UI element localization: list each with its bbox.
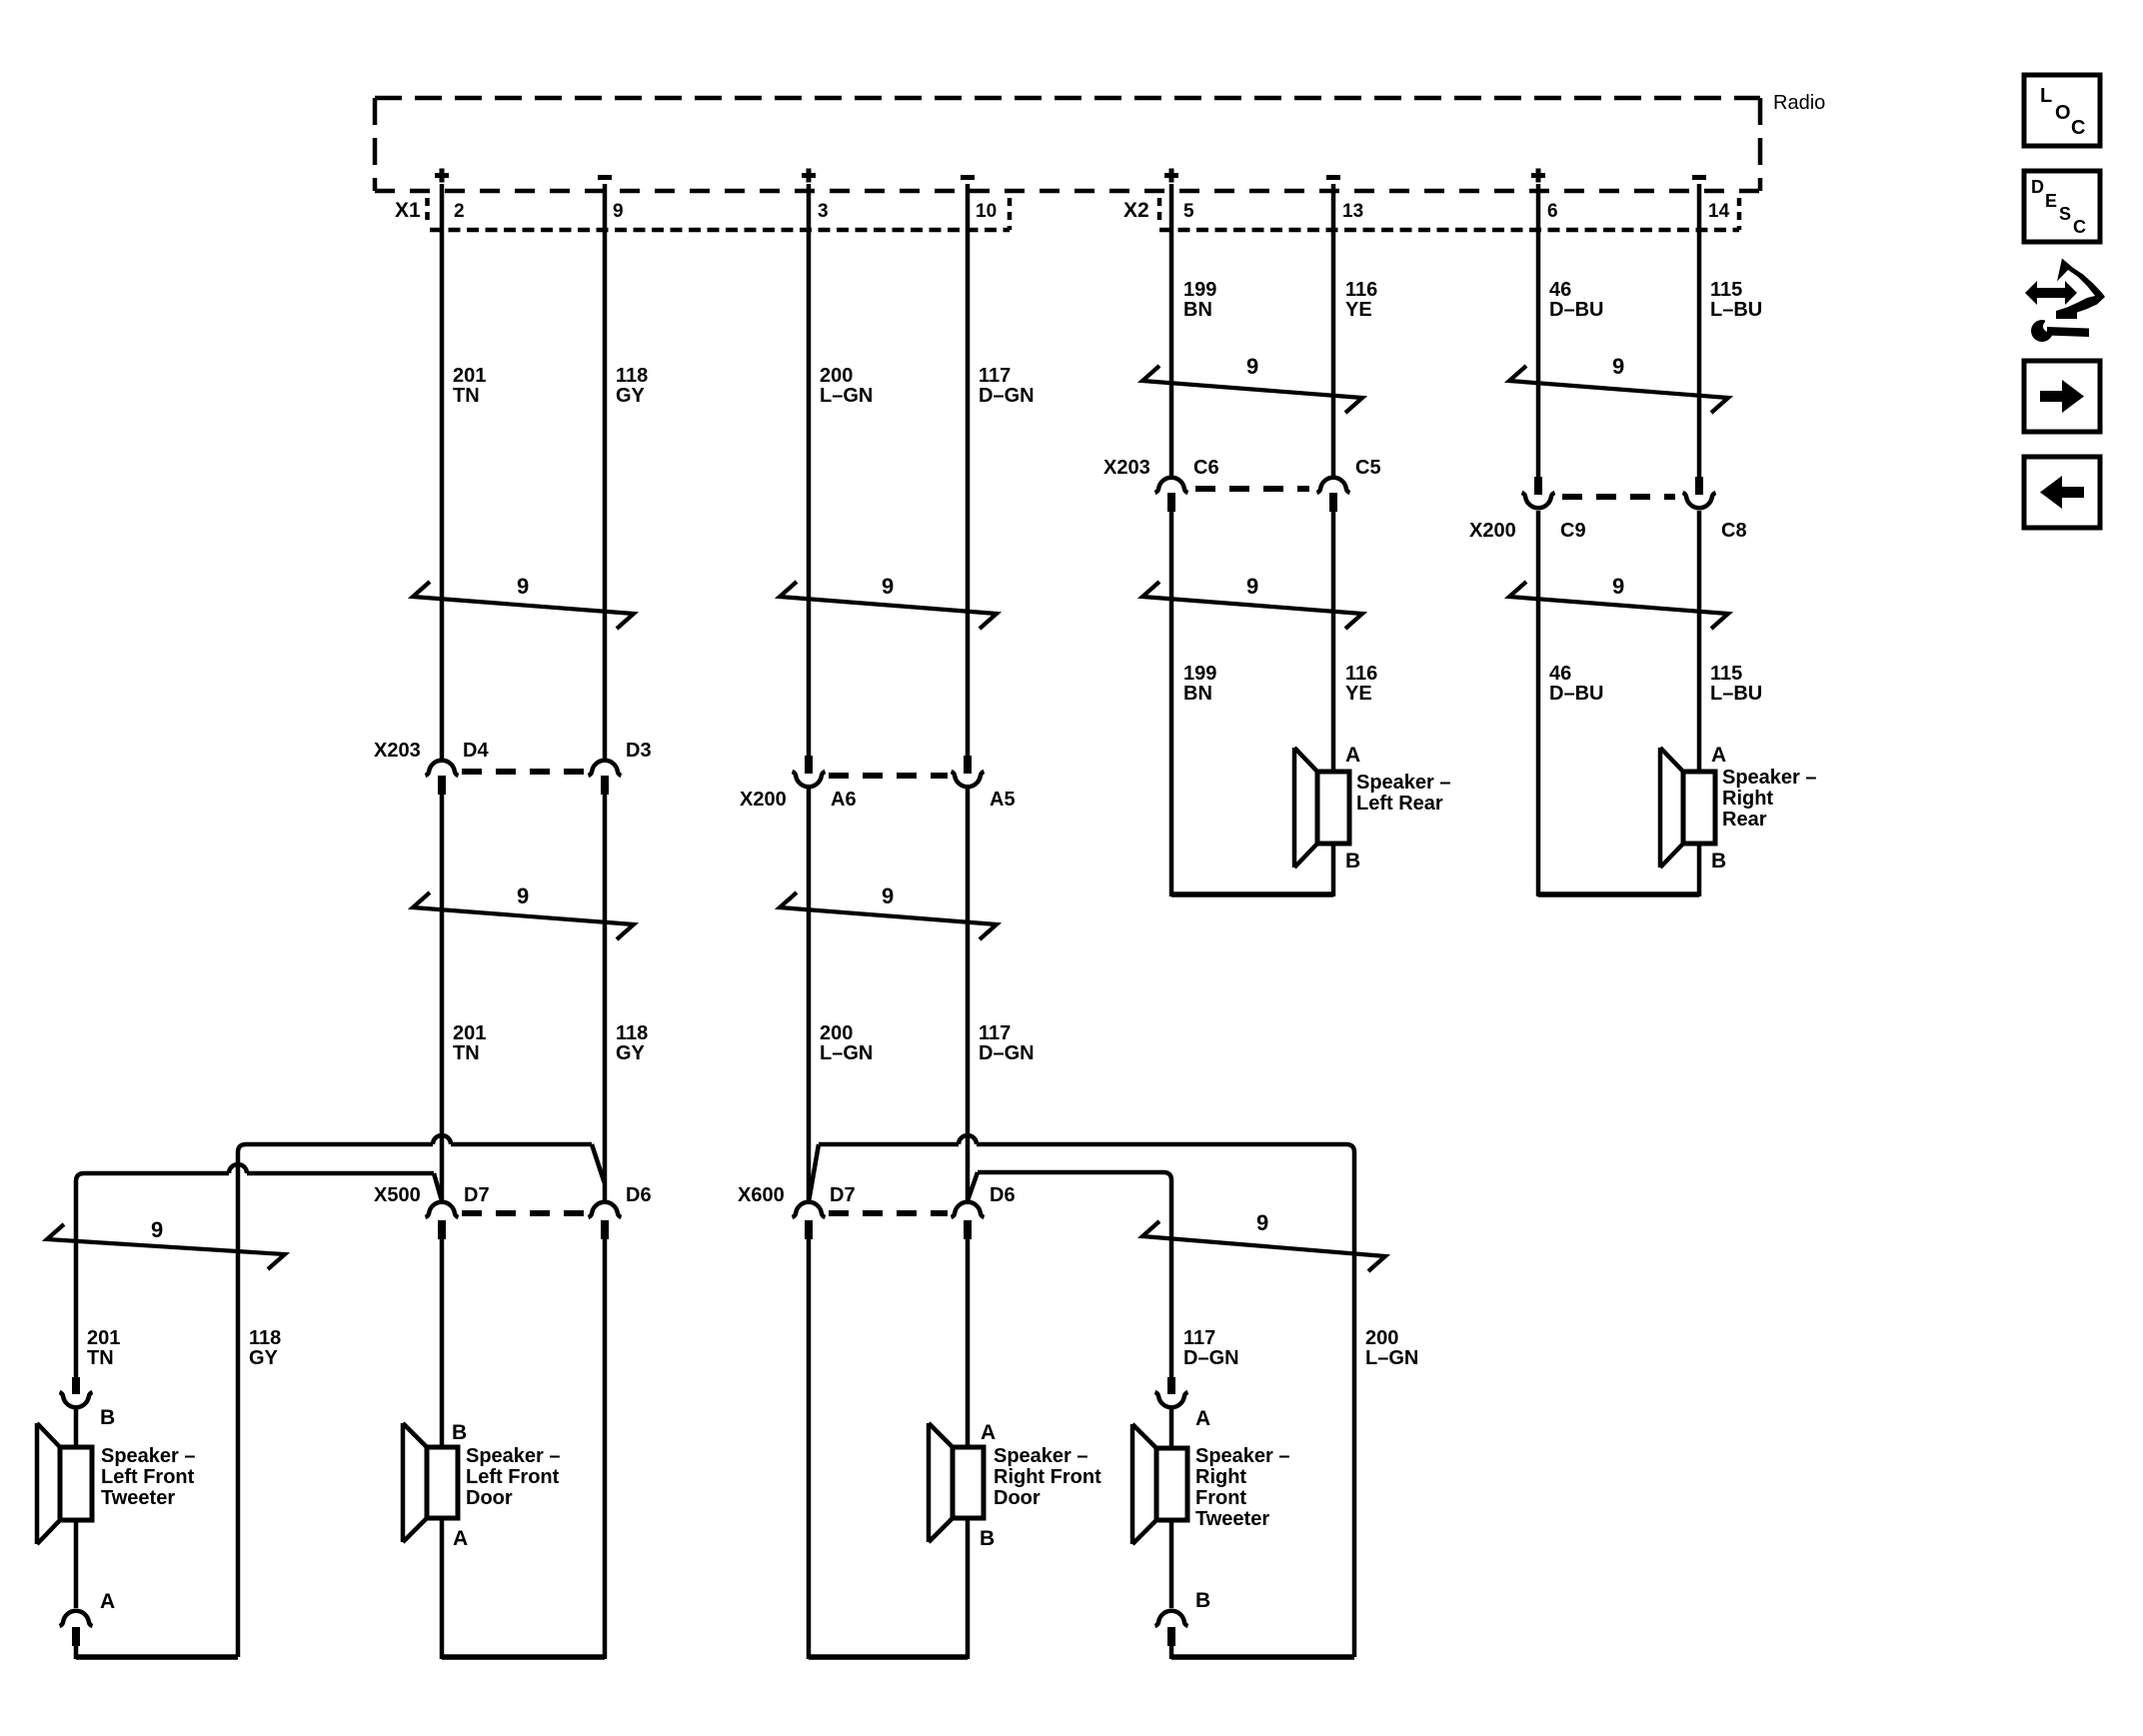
hop bump (118 GY branch over 201 TN wire)	[433, 1135, 451, 1144]
svg-text:L–GN: L–GN	[820, 1042, 873, 1064]
wire loop Right Front Tweeter	[1171, 1654, 1354, 1660]
connector X203 D dashed mate line	[462, 769, 585, 775]
connector X200 pin A6	[805, 756, 813, 774]
wire Right Front Tweeter B to loop	[1169, 1646, 1174, 1659]
wire 118 GY (X203 D3 to X500 D6)	[603, 794, 608, 1202]
wire 117 D-GN (X200 A5 to X600 D6)	[966, 789, 971, 1202]
polarity −	[1692, 175, 1706, 180]
svg-text:Left Front: Left Front	[466, 1466, 560, 1488]
twisted-pair marker 9 (201/118) low	[413, 892, 634, 939]
svg-text:BN: BN	[1183, 299, 1212, 321]
svg-text:B: B	[1345, 850, 1360, 872]
svg-text:C6: C6	[1193, 457, 1219, 479]
svg-text:X203: X203	[374, 740, 421, 762]
svg-text:201: 201	[453, 1022, 486, 1044]
wire to Left Front Tweeter B	[74, 1409, 79, 1447]
svg-text:L–BU: L–BU	[1710, 683, 1762, 705]
svg-text:D–GN: D–GN	[1183, 1347, 1239, 1369]
svg-text:117: 117	[979, 1022, 1011, 1044]
svg-text:Radio: Radio	[1773, 92, 1825, 114]
speaker Left Front Door (icon)	[427, 1447, 458, 1518]
svg-text:L–BU: L–BU	[1710, 299, 1762, 321]
svg-text:46: 46	[1549, 279, 1571, 301]
svg-text:L–GN: L–GN	[1365, 1347, 1418, 1369]
connector pin (Right Front Tweeter A)	[1167, 1377, 1175, 1394]
twisted-pair marker 9 (200/117)	[780, 582, 997, 629]
svg-text:GY: GY	[616, 1042, 646, 1064]
polarity −	[598, 175, 612, 180]
wire loop Left Front Door	[442, 1654, 605, 1660]
svg-text:X2: X2	[1123, 199, 1149, 222]
connector X203 pin C6	[1155, 478, 1188, 493]
connector X500 pin D6	[589, 1202, 622, 1217]
svg-text:Speaker –: Speaker –	[1195, 1445, 1290, 1467]
wire loop Right Front Door	[809, 1654, 968, 1660]
wire Left Front Tweeter A to loop	[74, 1646, 79, 1659]
connector X500 dashed mate line	[462, 1210, 585, 1216]
svg-text:YE: YE	[1345, 299, 1372, 321]
twisted-pair marker 9 (199/116) mid	[1142, 582, 1362, 629]
connector X203 pin C5	[1317, 478, 1350, 493]
svg-text:D4: D4	[463, 740, 489, 762]
svg-text:YE: YE	[1345, 683, 1372, 705]
svg-text:201: 201	[87, 1327, 120, 1349]
svg-text:D6: D6	[990, 1184, 1016, 1206]
svg-text:Speaker –: Speaker –	[1356, 772, 1451, 794]
svg-text:10: 10	[976, 201, 997, 222]
svg-text:A: A	[100, 1590, 115, 1613]
twisted-pair marker 9 (46/115)	[1509, 366, 1728, 413]
svg-text:C: C	[2073, 217, 2086, 237]
svg-text:Right: Right	[1722, 788, 1773, 810]
svg-text:115: 115	[1710, 663, 1742, 685]
wire 199 BN (X2-5 to X203 C6)	[1169, 184, 1174, 478]
svg-text:13: 13	[1342, 201, 1363, 222]
wire 116 YE (X203 C5 to Left Rear A)	[1331, 512, 1336, 772]
wire 118 GY (X1-9 to X203 D3)	[603, 184, 608, 761]
wire 201 TN (X1-2 to X203 D4)	[440, 184, 445, 761]
wire Right Rear B to loop	[1697, 844, 1702, 896]
svg-text:O: O	[2055, 102, 2071, 124]
icon LOC box	[2024, 75, 2100, 146]
connector X200 pin C8	[1695, 477, 1703, 495]
svg-text:118: 118	[616, 1022, 648, 1044]
svg-text:9: 9	[613, 201, 624, 222]
svg-text:117: 117	[979, 365, 1011, 387]
svg-text:D: D	[2031, 177, 2044, 197]
svg-text:201: 201	[453, 365, 486, 387]
wire 115 L-BU (X200 C8 to Right Rear A)	[1697, 511, 1702, 772]
svg-text:9: 9	[1612, 354, 1624, 379]
connector X1 (radio harness strip)	[430, 228, 1010, 233]
wire Left Rear B to loop	[1331, 844, 1336, 896]
wire loop Right Rear (46 D-BU return)	[1538, 891, 1699, 897]
icon DESC box	[2024, 171, 2100, 242]
polarity +	[1164, 169, 1178, 183]
svg-text:D–BU: D–BU	[1549, 299, 1603, 321]
connector X203 dashed mate line	[1195, 486, 1309, 492]
wire loop Left Front Tweeter	[76, 1654, 238, 1660]
wire X500 D7 to Left Front Door B	[440, 1239, 445, 1447]
svg-text:TN: TN	[87, 1347, 114, 1369]
svg-text:Left Rear: Left Rear	[1356, 793, 1443, 815]
svg-text:D7: D7	[464, 1184, 490, 1206]
svg-text:D–GN: D–GN	[979, 1042, 1035, 1064]
svg-text:200: 200	[820, 1022, 853, 1044]
svg-text:115: 115	[1710, 279, 1742, 301]
svg-text:TN: TN	[453, 385, 480, 407]
svg-text:Tweeter: Tweeter	[101, 1487, 175, 1509]
icon arrow left box	[2024, 457, 2100, 528]
svg-text:116: 116	[1345, 663, 1377, 685]
twisted-pair marker 9 (tweeter 201/118)	[47, 1224, 285, 1269]
svg-text:C9: C9	[1560, 520, 1586, 542]
svg-text:Front: Front	[1195, 1487, 1246, 1509]
svg-text:9: 9	[1612, 574, 1624, 599]
speaker Right Front Tweeter (icon)	[1156, 1448, 1187, 1520]
speaker Left Rear (icon)	[1317, 772, 1349, 844]
connector pin (Right Front Tweeter B)	[1155, 1611, 1188, 1626]
svg-text:A: A	[453, 1527, 468, 1550]
connector pin (Left Front Tweeter B)	[72, 1377, 80, 1394]
svg-text:Speaker –: Speaker –	[101, 1445, 196, 1467]
wire 117 D-GN branch (junction to Right Front Tweeter feed)	[978, 1172, 1171, 1377]
twisted-pair marker 9 (199/116)	[1142, 366, 1362, 413]
speaker Left Front Tweeter (icon)	[60, 1447, 92, 1520]
svg-text:9: 9	[151, 1217, 163, 1242]
svg-text:14: 14	[1708, 201, 1730, 222]
svg-text:X500: X500	[374, 1184, 421, 1206]
svg-text:D–BU: D–BU	[1549, 683, 1603, 705]
svg-text:200: 200	[820, 365, 853, 387]
wire loop Left Rear (199 BN return)	[1171, 891, 1333, 897]
twisted-pair marker 9 (200/117) low	[780, 892, 997, 939]
svg-text:TN: TN	[453, 1042, 480, 1064]
wire 201 TN (X203 D4 to X500 D7)	[440, 794, 445, 1202]
twisted-pair marker 9 (201/118)	[413, 582, 634, 629]
svg-text:Tweeter: Tweeter	[1195, 1508, 1269, 1530]
wire X600 D7 to loop	[807, 1239, 812, 1659]
svg-text:GY: GY	[249, 1347, 279, 1369]
svg-text:116: 116	[1345, 279, 1377, 301]
svg-text:9: 9	[517, 883, 529, 908]
svg-text:B: B	[1711, 850, 1726, 872]
svg-text:GY: GY	[616, 385, 646, 407]
radio (dashed outline box)	[375, 96, 1760, 101]
svg-text:199: 199	[1183, 279, 1216, 301]
svg-text:9: 9	[882, 574, 894, 599]
svg-text:Door: Door	[994, 1487, 1041, 1509]
svg-text:B: B	[100, 1406, 115, 1429]
svg-text:5: 5	[1183, 201, 1194, 222]
svg-text:Speaker –: Speaker –	[994, 1445, 1088, 1467]
svg-text:9: 9	[517, 574, 529, 599]
svg-text:Door: Door	[466, 1487, 513, 1509]
svg-text:X1: X1	[395, 199, 421, 222]
svg-text:9: 9	[1256, 1210, 1268, 1235]
svg-text:S: S	[2059, 204, 2071, 224]
polarity −	[1326, 175, 1340, 180]
svg-text:A: A	[981, 1421, 996, 1444]
svg-text:C5: C5	[1355, 457, 1381, 479]
svg-text:A: A	[1711, 744, 1726, 767]
svg-text:D7: D7	[830, 1184, 856, 1206]
svg-text:117: 117	[1183, 1327, 1215, 1349]
svg-text:C8: C8	[1721, 520, 1747, 542]
wire 116 YE (X2-13 to X203 C5)	[1331, 184, 1336, 478]
svg-text:199: 199	[1183, 663, 1216, 685]
wire Left Front Door A to loop	[440, 1518, 445, 1659]
svg-text:D3: D3	[626, 740, 652, 762]
speaker Right Front Door (icon)	[953, 1447, 984, 1518]
wire 118 GY branch (junction to Left Front Tweeter return)	[451, 1142, 592, 1147]
wire 200 L-GN branch (junction to Right Front Tweeter return)	[819, 1142, 959, 1147]
svg-text:B: B	[980, 1527, 995, 1550]
svg-text:118: 118	[249, 1327, 281, 1349]
polarity +	[1531, 169, 1545, 183]
svg-text:L–GN: L–GN	[820, 385, 873, 407]
svg-text:B: B	[1195, 1589, 1210, 1612]
svg-text:BN: BN	[1183, 683, 1212, 705]
svg-text:46: 46	[1549, 663, 1571, 685]
hop bump (201 TN branch over 118 GY branch)	[229, 1164, 247, 1173]
svg-text:A: A	[1345, 744, 1360, 767]
svg-text:D–GN: D–GN	[979, 385, 1035, 407]
wire 46 D-BU (X200 C9 to Right Rear loop)	[1536, 511, 1541, 896]
svg-text:Right: Right	[1195, 1466, 1246, 1488]
connector X500 pin D7	[426, 1202, 459, 1217]
svg-text:D6: D6	[626, 1184, 652, 1206]
polarity −	[961, 175, 975, 180]
svg-text:C: C	[2071, 117, 2085, 139]
connector X200 pin C9	[1534, 477, 1542, 495]
connector X200 pin A5	[964, 756, 972, 774]
connector pin (Left Front Tweeter A)	[60, 1611, 93, 1626]
wire from Left Front Tweeter A	[74, 1520, 79, 1608]
connector X600 pin D6	[952, 1202, 985, 1217]
wire X600 D6 to Right Front Door A	[966, 1239, 971, 1447]
svg-text:X600: X600	[738, 1184, 785, 1206]
wire to Right Front Tweeter A	[1169, 1409, 1174, 1448]
svg-text:E: E	[2045, 191, 2057, 211]
speaker Right Rear (icon)	[1683, 772, 1715, 844]
hop bump (200 L-GN branch over 117 D-GN wire)	[959, 1135, 977, 1144]
twisted-pair marker 9 (tweeter 117/200)	[1142, 1221, 1385, 1271]
wire 117 D-GN (X1-10 to X200 A5)	[966, 184, 971, 756]
svg-text:X203: X203	[1103, 457, 1150, 479]
svg-text:Speaker –: Speaker –	[466, 1445, 561, 1467]
connector X600 dashed mate line	[829, 1210, 948, 1216]
twisted-pair marker 9 (46/115) mid	[1509, 582, 1728, 629]
svg-text:200: 200	[1365, 1327, 1398, 1349]
svg-text:Rear: Rear	[1722, 809, 1767, 831]
wire 115 L-BU (X2-14 to X200 C8)	[1697, 184, 1702, 477]
wire X500 D6 to loop	[603, 1239, 608, 1659]
connector X600 pin D7	[793, 1202, 826, 1217]
wire 46 D-BU (X2-6 to X200 C9)	[1536, 184, 1541, 477]
connector X200 A dashed mate line	[829, 773, 948, 779]
svg-text:118: 118	[616, 365, 648, 387]
svg-text:X200: X200	[1469, 520, 1516, 542]
svg-text:L: L	[2040, 85, 2052, 107]
connector X200 dashed mate line	[1562, 494, 1675, 500]
svg-text:B: B	[452, 1421, 467, 1444]
svg-text:3: 3	[818, 201, 829, 222]
wire 199 BN (X203 C6 to Left Rear loop)	[1169, 512, 1174, 896]
polarity +	[435, 169, 449, 183]
icon arrow right box	[2024, 361, 2100, 432]
svg-text:Left Front: Left Front	[101, 1466, 195, 1488]
svg-text:2: 2	[454, 201, 465, 222]
svg-text:A5: A5	[990, 789, 1016, 811]
svg-text:9: 9	[1246, 354, 1258, 379]
connector X203 pin D4	[426, 761, 459, 776]
svg-text:Speaker –: Speaker –	[1722, 767, 1817, 789]
svg-text:X200: X200	[740, 789, 787, 811]
svg-text:A: A	[1195, 1407, 1210, 1430]
wire from Right Front Tweeter B	[1169, 1520, 1174, 1608]
svg-text:9: 9	[1246, 574, 1258, 599]
connector X2 (radio harness strip)	[1159, 228, 1739, 233]
svg-text:A6: A6	[831, 789, 857, 811]
connector X203 pin D3	[589, 761, 622, 776]
wire 200 L-GN (X200 A6 to X600 D7)	[807, 789, 812, 1202]
svg-text:Right Front: Right Front	[994, 1466, 1101, 1488]
wire 201 TN branch (junction to Left Front Tweeter feed)	[247, 1171, 434, 1176]
wire 200 L-GN (X1-3 to X200 A6)	[807, 184, 812, 756]
svg-text:6: 6	[1547, 201, 1558, 222]
wire Right Front Door B to loop	[966, 1518, 971, 1659]
icon data link / diagnostic	[2025, 281, 2077, 305]
polarity +	[802, 169, 816, 183]
svg-text:9: 9	[882, 883, 894, 908]
